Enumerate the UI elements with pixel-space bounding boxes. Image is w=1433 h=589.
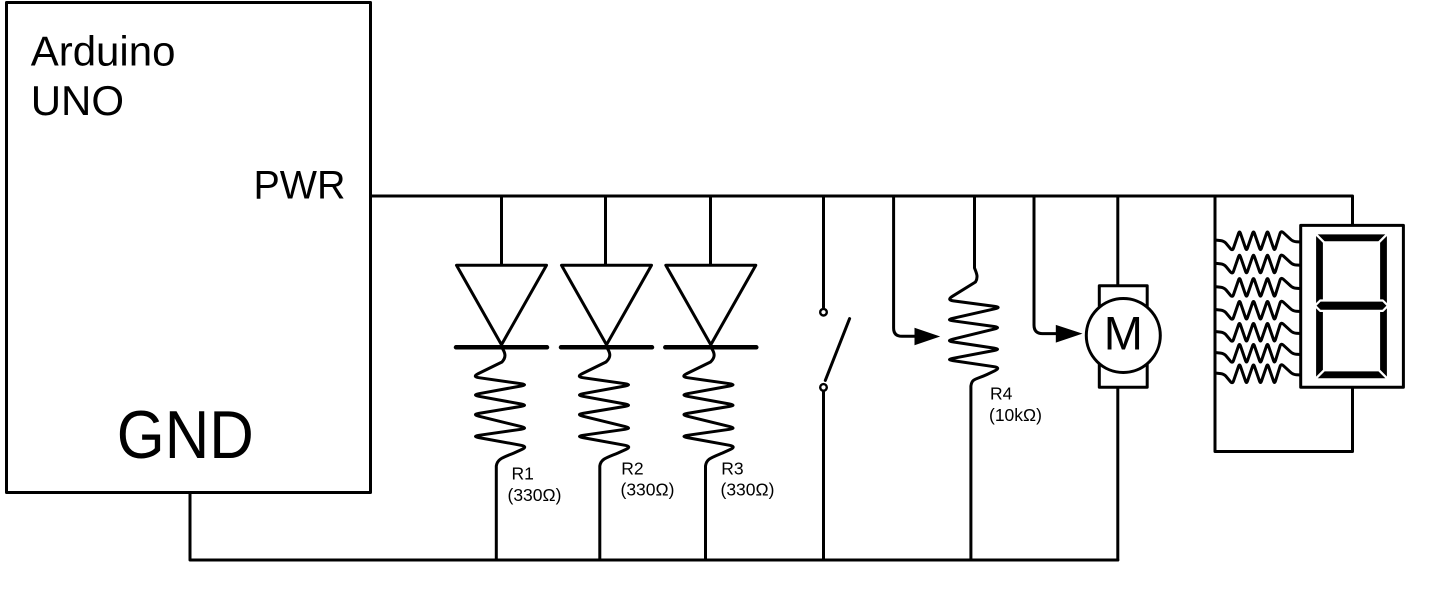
svg-text:R2: R2 <box>621 458 643 478</box>
svg-text:M: M <box>1104 307 1143 360</box>
svg-text:Arduino: Arduino <box>31 28 176 75</box>
svg-text:(10kΩ): (10kΩ) <box>989 405 1042 425</box>
svg-text:PWR: PWR <box>254 164 346 208</box>
svg-text:(330Ω): (330Ω) <box>621 480 675 500</box>
svg-text:(330Ω): (330Ω) <box>721 480 775 500</box>
svg-text:R1: R1 <box>512 464 534 484</box>
svg-text:R4: R4 <box>990 383 1013 403</box>
svg-text:R3: R3 <box>721 459 743 479</box>
svg-text:UNO: UNO <box>31 77 124 124</box>
svg-text:GND: GND <box>117 397 254 473</box>
svg-text:(330Ω): (330Ω) <box>508 485 562 505</box>
